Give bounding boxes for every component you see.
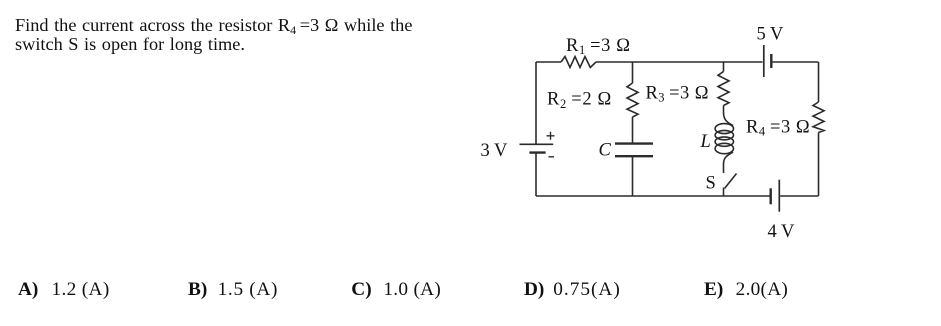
inductor L <box>715 112 733 173</box>
svg-text:L: L <box>700 132 711 152</box>
wire: bottom rail right (right rail to 4V battery) <box>780 195 818 197</box>
wire: branch 2 upper (top rail to R2) <box>632 62 634 83</box>
battery 4V: long plate <box>778 180 780 212</box>
circuit schematic <box>470 0 941 280</box>
svg-text:4 V: 4 V <box>768 222 796 242</box>
battery 3V: short plate <box>529 151 545 153</box>
wire: bottom rail left (4V battery to left rail) <box>536 195 770 197</box>
resistor R1 <box>561 57 596 68</box>
svg-text:3 V: 3 V <box>481 141 509 161</box>
svg-text:5 V: 5 V <box>757 25 785 45</box>
resistor R4 <box>813 102 824 133</box>
wire: top rail right (5V battery to right rail) <box>772 61 818 63</box>
svg-text:R1 =3 Ω: R1 =3 Ω <box>566 36 631 57</box>
svg-text:C: C <box>599 141 612 161</box>
wire: branch 3 (R3 to inductor) <box>723 106 725 113</box>
resistor R2 <box>627 83 638 117</box>
battery 4V: short plate <box>770 188 772 204</box>
label - (3V negative) <box>549 156 555 158</box>
svg-text:S: S <box>706 174 716 194</box>
switch S: blade (open) <box>725 174 737 189</box>
answer option A <box>18 279 110 301</box>
svg-text:R4 =3 Ω: R4 =3 Ω <box>746 118 810 139</box>
answer option D <box>524 279 621 301</box>
capacitor C: bottom plate <box>615 155 653 157</box>
resistor R3 <box>718 72 729 106</box>
capacitor C: top plate <box>615 142 653 144</box>
wire: right rail upper <box>818 62 820 102</box>
answer option B <box>188 279 278 301</box>
wire: top rail left stub (node A to R1) <box>536 61 561 63</box>
wire: branch 2 middle (R2 to capacitor) <box>632 117 634 144</box>
svg-text:R2 =2 Ω: R2 =2 Ω <box>547 90 612 111</box>
wire: branch 3 upper (top rail to R3) <box>723 62 725 72</box>
wire: branch 2 lower (capacitor to bottom rail) <box>632 156 634 196</box>
answer option E <box>704 279 788 301</box>
battery 5V: long plate <box>763 45 765 77</box>
wire: top rail middle (R1 to 5V battery) <box>596 61 763 63</box>
battery 3V: long plate <box>520 143 554 145</box>
wire: left rail upper <box>535 62 537 144</box>
label + (3V positive) <box>547 132 555 140</box>
question text <box>15 16 412 55</box>
wire: right rail lower <box>818 133 820 197</box>
battery 5V: short plate <box>770 54 772 68</box>
answer option C <box>351 279 441 301</box>
wire: branch 3 lower (switch to bottom rail) <box>723 188 725 197</box>
wire: left rail lower <box>535 153 537 196</box>
svg-text:R3 =3 Ω: R3 =3 Ω <box>646 84 710 105</box>
